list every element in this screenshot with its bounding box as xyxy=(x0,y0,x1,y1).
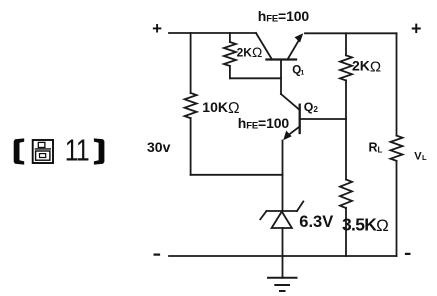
resistor 10K zigzag xyxy=(185,93,197,118)
svg-text:6.3V: 6.3V xyxy=(299,213,333,231)
zener D1 triangle xyxy=(272,212,292,229)
wire top-right rail xyxy=(305,32,397,34)
resistor 2K left stub top xyxy=(229,33,231,42)
wire Q2 emitter vertical xyxy=(282,141,284,211)
svg-text:30v: 30v xyxy=(147,139,171,155)
label figure glyph tu outer box xyxy=(33,140,53,163)
label figure glyph tu inner mouth xyxy=(38,142,45,147)
wire horizontal to zener column xyxy=(191,174,283,176)
wire Q1 collector diagonal xyxy=(256,33,272,60)
wire zener to bottom rail xyxy=(282,228,284,256)
label figure bracket right xyxy=(94,138,105,164)
label - right xyxy=(405,253,411,255)
label figure glyph tu middle bar xyxy=(35,148,51,150)
label figure glyph tu lower box xyxy=(36,151,50,160)
ground bar3 xyxy=(280,290,285,292)
svg-text:VL: VL xyxy=(414,150,427,162)
wire Q2 emitter diagonal xyxy=(287,127,300,137)
label figure glyph tu lower inner xyxy=(40,154,46,158)
wire mid vertical middle xyxy=(345,80,347,179)
wire mid vertical bottom xyxy=(345,208,347,256)
ground bar2 xyxy=(275,284,289,286)
zener D1 left wing xyxy=(260,211,266,219)
wire bottom rail xyxy=(169,255,397,257)
svg-text:+: + xyxy=(152,19,162,38)
wire Q1 base to Q2 collector diagonal xyxy=(281,94,300,110)
arrowhead Q2 emitter xyxy=(283,131,292,141)
resistor 3.5K zigzag xyxy=(340,180,352,209)
resistor 2K left stub bottom xyxy=(229,66,231,78)
svg-text:hFE=100: hFE=100 xyxy=(258,8,310,25)
transistor Q2 base bar xyxy=(299,105,301,133)
resistor 2K right zigzag xyxy=(340,55,352,80)
wire right vertical upper xyxy=(396,33,398,135)
wire Q1 emitter diagonal xyxy=(288,38,301,60)
wire mid vertical stub top xyxy=(345,33,347,55)
wire 2K bottom to Q1 base xyxy=(230,77,281,79)
svg-text:+: + xyxy=(411,19,422,39)
label - left xyxy=(154,254,161,256)
svg-text:2KΩ: 2KΩ xyxy=(352,58,381,76)
wire Q1 base lead down xyxy=(280,60,282,95)
svg-text:hFE=100: hFE=100 xyxy=(238,115,290,132)
ground bar1 xyxy=(268,277,297,279)
svg-text:1: 1 xyxy=(76,133,90,167)
label figure 11 xyxy=(65,133,79,167)
wire left vertical upper xyxy=(190,33,192,93)
wire top-left rail xyxy=(169,32,256,34)
transistor Q1 base bar xyxy=(267,58,297,60)
svg-text:RL: RL xyxy=(369,140,383,154)
resistor RL zigzag xyxy=(391,136,403,161)
wire left vertical lower xyxy=(190,118,192,175)
resistor 2K left zigzag xyxy=(224,42,236,66)
wire right vertical lower xyxy=(396,161,398,256)
svg-text:Q1: Q1 xyxy=(292,64,304,76)
zener D1 right wing xyxy=(297,202,303,212)
svg-text:3.5KΩ: 3.5KΩ xyxy=(342,215,388,236)
arrowhead Q1 emitter xyxy=(295,33,304,42)
svg-text:Q2: Q2 xyxy=(304,100,319,114)
zener D1 cathode bar xyxy=(267,210,298,212)
ground stem xyxy=(282,256,284,278)
label figure bracket left xyxy=(14,138,25,164)
wire Q2 base lead xyxy=(300,118,346,120)
svg-text:10KΩ: 10KΩ xyxy=(202,99,239,117)
svg-text:2KΩ: 2KΩ xyxy=(237,45,263,60)
